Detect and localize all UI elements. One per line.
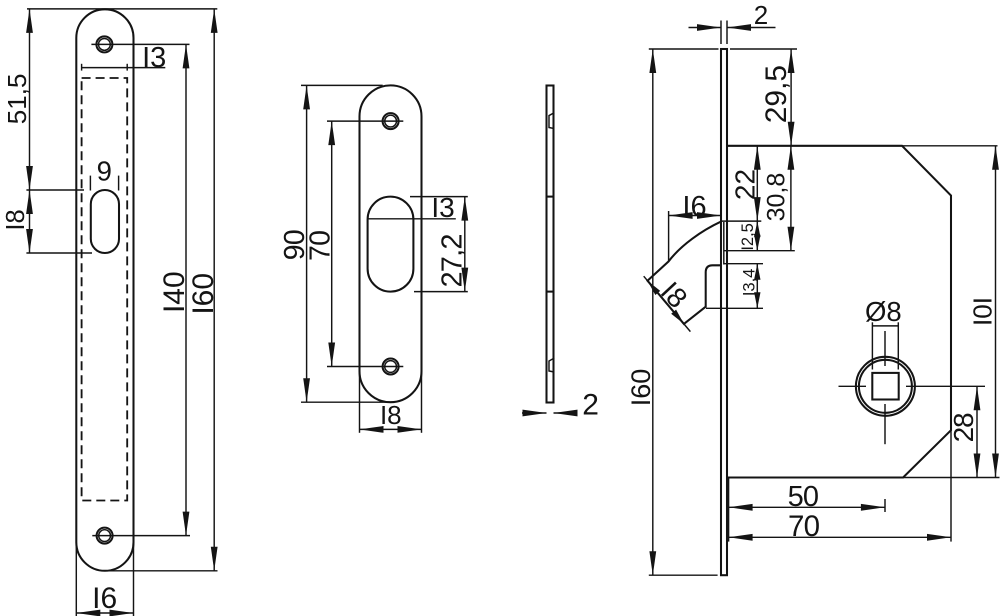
- dim 16 hook protrusion: [668, 211, 670, 261]
- svg-text:Ø8: Ø8: [865, 296, 902, 327]
- svg-text:I3: I3: [142, 42, 166, 74]
- svg-text:I8: I8: [655, 276, 694, 314]
- view3 thin side profile: [547, 86, 554, 403]
- svg-text:I8: I8: [2, 209, 30, 230]
- svg-text:27,2: 27,2: [436, 234, 468, 287]
- dim 140 (hole to hole): [91, 43, 189, 45]
- svg-text:I8: I8: [380, 400, 402, 430]
- dim 29,5 (plate top to case top): [730, 48, 797, 50]
- svg-text:9: 9: [97, 155, 112, 186]
- svg-text:I3,4: I3,4: [740, 269, 758, 297]
- dim 28 (spindle to case bottom): [976, 386, 978, 477]
- dim 2 (plate thickness view3): [522, 412, 547, 414]
- dim 13 (pocket width): [81, 64, 83, 71]
- case right edge extension down for dim 70: [950, 430, 952, 541]
- dim 18 bottom (plate width): [359, 371, 361, 433]
- dim 50 (case front to spindle): [728, 478, 730, 542]
- view3 bottom countersunk hole section: [549, 358, 554, 372]
- dim 160 (plate height): [104, 570, 218, 572]
- view2 oval cutout 13x27.2: [368, 197, 414, 292]
- dim diameter 8 (spindle): [871, 322, 873, 369]
- svg-text:I6: I6: [92, 582, 117, 615]
- svg-text:22: 22: [730, 169, 761, 200]
- dim 30,8: [724, 250, 795, 252]
- dim 22: [722, 220, 762, 222]
- svg-text:70: 70: [788, 510, 820, 543]
- dim 27,2 (oval height): [410, 196, 468, 198]
- dim 70 (case front to back): [729, 536, 951, 538]
- view2 bottom screw hole: [383, 359, 399, 375]
- dim 13 (oval width): [368, 218, 456, 220]
- svg-text:30,8: 30,8: [763, 173, 791, 222]
- dim 12,5: [756, 221, 758, 251]
- svg-text:2: 2: [754, 0, 768, 30]
- view3 oval edges in profile: [547, 196, 554, 198]
- svg-text:I2,5: I2,5: [739, 223, 757, 251]
- svg-text:70: 70: [305, 231, 337, 261]
- svg-text:2: 2: [582, 388, 599, 421]
- view3 top countersunk hole section: [549, 113, 554, 129]
- svg-text:I60: I60: [187, 273, 220, 315]
- hook bolt protruding at 45deg: [648, 222, 722, 324]
- view1 dashed pocket rectangle: [82, 78, 128, 501]
- dim 51,5 left: [27, 8, 104, 10]
- dim 13,4: [724, 263, 764, 265]
- dim 16 bottom (plate width): [75, 542, 77, 616]
- spindle centerlines: [839, 385, 867, 387]
- view2 faceplate outline: [360, 85, 422, 402]
- dim 101 (case height): [995, 146, 997, 478]
- view4 lock case outline with chamfered corners: [727, 146, 951, 478]
- dim 160 view4 (left): [649, 48, 719, 50]
- view1 oval cutout 9x18: [91, 190, 119, 253]
- dim 18 hook width (rotated, along band end cap): [644, 276, 691, 331]
- dim 2 top (faceplate thickness): [720, 21, 722, 45]
- svg-text:28: 28: [948, 413, 979, 442]
- case top extension right for dim 101: [902, 145, 998, 147]
- hook slot edge inside faceplate: [723, 222, 725, 265]
- svg-text:I6: I6: [682, 191, 706, 223]
- view4 faceplate strip: [721, 49, 727, 575]
- dim 9 (oval width) ticks + label: [89, 176, 91, 191]
- svg-text:29,5: 29,5: [760, 65, 793, 123]
- svg-text:I0I: I0I: [968, 297, 998, 326]
- dim 18 left (oval height): [26, 252, 92, 254]
- svg-text:51,5: 51,5: [2, 74, 32, 125]
- view1 faceplate outline (stadium shape): [76, 9, 133, 570]
- spindle hole: double circle with square: [856, 357, 915, 416]
- dim 90 (plate height): [301, 84, 383, 86]
- view2 top screw hole: [383, 113, 399, 129]
- case bottom extension right: [903, 477, 999, 479]
- dim 70 (hole to hole): [327, 120, 403, 122]
- svg-text:I60: I60: [626, 369, 656, 407]
- svg-text:50: 50: [788, 481, 819, 513]
- view1 top screw hole: [96, 36, 112, 52]
- view1 bottom screw hole: [97, 528, 113, 544]
